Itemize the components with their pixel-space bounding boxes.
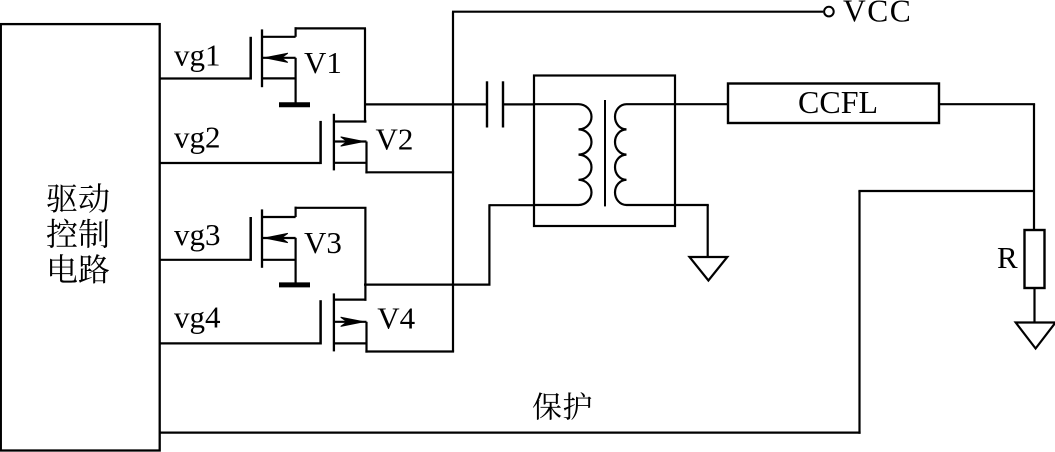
svg-text:V3: V3 bbox=[304, 225, 342, 260]
transistor V4 (lower-right MOSFET) bbox=[321, 293, 367, 351]
transistor V3 (lower-left MOSFET) bbox=[251, 209, 296, 267]
svg-text:V2: V2 bbox=[376, 122, 414, 157]
label 控制 (control) bbox=[47, 219, 108, 248]
transformer T1 secondary winding bbox=[615, 104, 675, 205]
wire vg2 gate drive bbox=[160, 162, 320, 164]
node B rail to transformer bbox=[364, 204, 534, 284]
wire vg1 gate drive bbox=[160, 77, 250, 79]
wire V3 source to ground bbox=[295, 238, 297, 284]
ground bar of V1 bbox=[279, 102, 310, 107]
svg-text:VCC: VCC bbox=[843, 0, 912, 28]
ground triangle under resistor bbox=[1016, 323, 1055, 349]
wire protection feedback (bottom run) bbox=[160, 432, 861, 434]
svg-text:V1: V1 bbox=[304, 45, 342, 80]
terminal VCC circle bbox=[824, 7, 834, 17]
ground bar of V3 bbox=[279, 282, 310, 287]
wire V2 source rail bbox=[365, 142, 454, 174]
svg-text:vg1: vg1 bbox=[174, 38, 221, 73]
wire transformer to CCFL bbox=[675, 103, 728, 105]
wire CCFL to resistor bbox=[939, 104, 1035, 230]
transformer T1 box bbox=[534, 76, 675, 227]
label 电路 (circuit) bbox=[50, 254, 109, 283]
wire V1 drain to node A bbox=[295, 27, 367, 122]
svg-text:vg2: vg2 bbox=[174, 120, 221, 155]
net VCC rail bbox=[452, 12, 823, 352]
wire protection feedback (vertical rise) bbox=[858, 191, 860, 434]
svg-text:vg3: vg3 bbox=[174, 217, 221, 252]
label 保护 (protection) bbox=[533, 392, 592, 420]
resistor R (current sense) bbox=[1025, 230, 1045, 288]
drive-control block U1 (driver control circuit) bbox=[1, 24, 160, 450]
label 驱动 (drive) bbox=[47, 183, 109, 213]
capacitor C1 (DC-blocking) bbox=[487, 81, 503, 127]
wire vg4 gate drive bbox=[160, 342, 320, 344]
svg-text:R: R bbox=[997, 240, 1018, 275]
wire V1 source to ground bbox=[295, 58, 297, 104]
wire resistor to ground bbox=[1033, 288, 1035, 323]
wire V4 source rail bbox=[365, 322, 454, 353]
svg-text:vg4: vg4 bbox=[174, 299, 221, 334]
svg-text:V4: V4 bbox=[377, 301, 415, 336]
ground triangle under transformer bbox=[690, 257, 728, 281]
wire capacitor to transformer bbox=[503, 103, 534, 105]
transformer T1 primary winding bbox=[534, 104, 592, 205]
svg-text:CCFL: CCFL bbox=[798, 84, 878, 120]
transformer T1 core bbox=[604, 100, 606, 206]
node A rail to capacitor bbox=[364, 103, 487, 105]
wire protection feedback (tap to sense node) bbox=[858, 190, 1034, 192]
transistor V1 (upper-left MOSFET) bbox=[251, 29, 296, 87]
wire vg3 gate drive bbox=[160, 259, 250, 261]
wire secondary low side to ground bbox=[675, 205, 709, 258]
transistor V2 (upper-right MOSFET) bbox=[321, 114, 367, 171]
lamp CCFL box bbox=[728, 84, 939, 124]
wire V3 drain to node B bbox=[295, 207, 367, 301]
